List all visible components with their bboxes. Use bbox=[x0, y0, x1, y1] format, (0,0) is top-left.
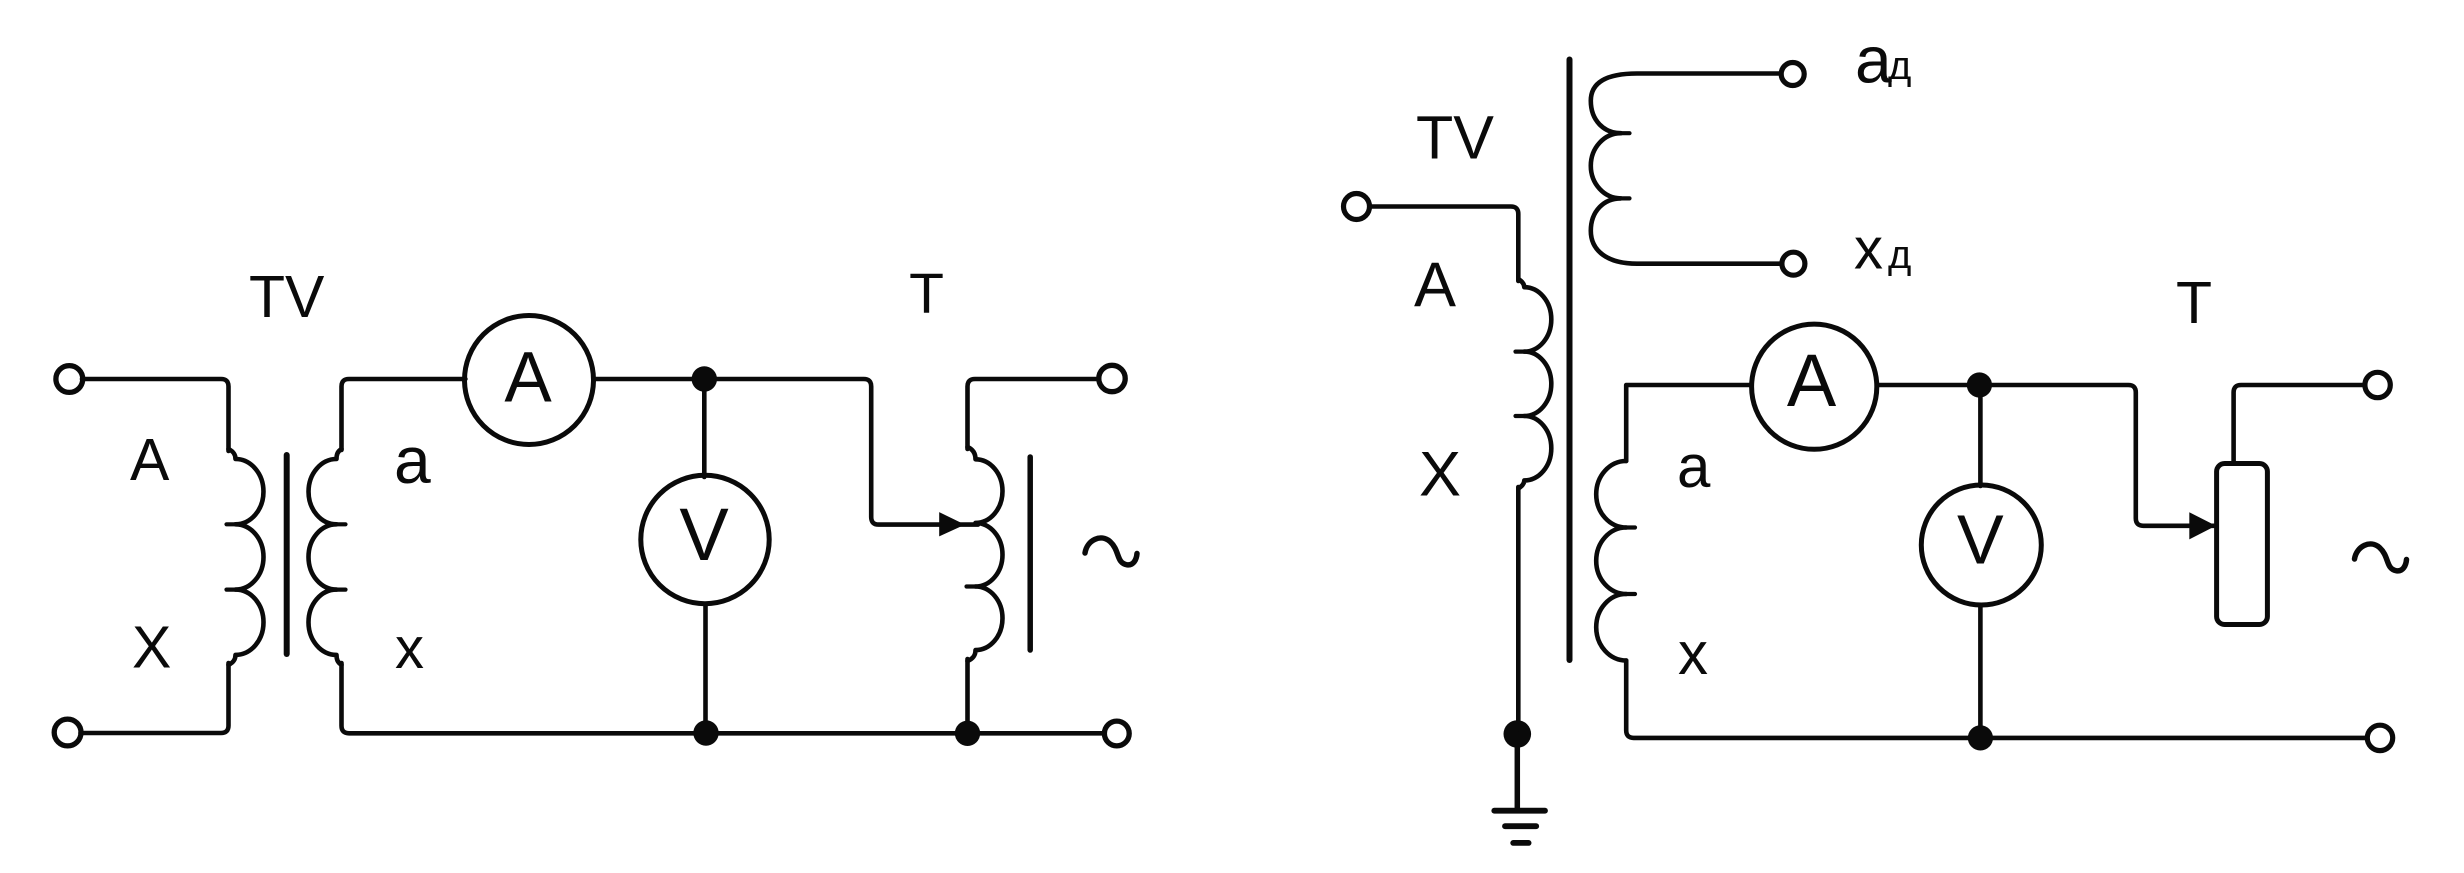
wire TV primary end to bottom-left terminal bbox=[81, 663, 229, 733]
svg-text:a: a bbox=[394, 423, 431, 497]
wire secondary a up to top rail bbox=[342, 379, 466, 450]
terminal output top-right bbox=[1099, 365, 1125, 391]
wire ammeter to tap step (through node) bbox=[1877, 385, 2214, 526]
node bottom voltmeter junction bbox=[693, 720, 718, 745]
wire TV primary end down to ground node bbox=[1516, 487, 1521, 723]
ac source tilde bbox=[2355, 544, 2407, 571]
terminal input left bbox=[1344, 194, 1370, 220]
svg-text:T: T bbox=[909, 262, 944, 326]
svg-text:TV: TV bbox=[249, 264, 325, 330]
wire input to TV primary bbox=[1370, 207, 1519, 282]
svg-text:a: a bbox=[1677, 433, 1711, 500]
winding TV additional (ad-xd) bbox=[1591, 74, 1781, 264]
wire rheostat top to output terminal bbox=[2234, 385, 2365, 463]
terminal xd bbox=[1782, 252, 1805, 275]
svg-text:х: х bbox=[1854, 217, 1883, 282]
winding cusp ticks bbox=[227, 133, 1636, 594]
wire secondary a up and to ammeter bbox=[1626, 385, 1751, 461]
rheostat body T bbox=[2217, 464, 2268, 625]
winding TV secondary bbox=[308, 449, 341, 665]
node top junction bbox=[1967, 372, 1992, 397]
terminal ad bbox=[1781, 63, 1804, 86]
winding TV secondary (a-x) bbox=[1596, 461, 1626, 661]
wire node to voltmeter bbox=[702, 391, 707, 477]
svg-text:A: A bbox=[504, 339, 552, 418]
ammeter PA1 bbox=[465, 316, 594, 445]
core autotransformer bbox=[1027, 457, 1033, 650]
tap arrow into rheostat T bbox=[2189, 512, 2216, 539]
winding TV primary bbox=[229, 449, 264, 665]
wire top-left input to TV primary bbox=[82, 379, 229, 451]
wire node to voltmeter bbox=[1978, 398, 1983, 486]
node top junction bbox=[692, 366, 717, 391]
terminal output top-right bbox=[2365, 372, 2390, 397]
svg-text:д: д bbox=[1888, 233, 1911, 277]
node bottom voltmeter junction bbox=[1968, 725, 1993, 750]
wire secondary x to bottom rail and output bbox=[1626, 661, 2367, 738]
node bottom autotransformer junction bbox=[955, 721, 980, 746]
wire autotransformer bottom to node bbox=[965, 659, 970, 722]
winding TV primary bbox=[1518, 279, 1551, 489]
tap arrow into autotransformer T bbox=[939, 512, 965, 536]
svg-text:A: A bbox=[1787, 339, 1837, 422]
svg-text:д: д bbox=[1888, 44, 1911, 88]
svg-text:x: x bbox=[395, 616, 424, 681]
winding autotransformer T bbox=[968, 447, 1003, 661]
svg-text:x: x bbox=[1678, 620, 1708, 687]
ground bbox=[1494, 734, 1545, 843]
node ground junction bbox=[1504, 720, 1532, 748]
wire voltmeter to bottom rail bbox=[1978, 605, 1983, 734]
terminal input bottom-left bbox=[54, 719, 81, 746]
terminal output bottom-right bbox=[2367, 725, 2392, 750]
svg-text:X: X bbox=[132, 615, 171, 681]
ac source tilde bbox=[1085, 538, 1137, 565]
wire secondary x to bottom rail bbox=[342, 663, 1105, 733]
svg-text:T: T bbox=[2176, 270, 2212, 336]
wire ammeter to tap step (through node) bbox=[594, 379, 978, 525]
voltmeter PV2 bbox=[1921, 485, 2041, 605]
ammeter PA2 bbox=[1752, 324, 1877, 449]
svg-text:V: V bbox=[1957, 501, 2004, 579]
svg-text:V: V bbox=[679, 493, 729, 576]
terminal output bottom-right bbox=[1104, 721, 1129, 746]
terminal input top-left bbox=[56, 366, 83, 393]
svg-text:TV: TV bbox=[1416, 104, 1494, 172]
svg-text:A: A bbox=[130, 427, 170, 493]
core TV bbox=[284, 455, 290, 654]
svg-text:A: A bbox=[1414, 250, 1456, 320]
voltmeter PV1 bbox=[641, 475, 769, 603]
svg-text:а: а bbox=[1855, 23, 1892, 97]
wire voltmeter to bottom rail bbox=[703, 604, 708, 730]
wire autotransformer top to right terminal bbox=[968, 379, 1100, 449]
svg-text:X: X bbox=[1419, 440, 1461, 510]
core TV bbox=[1567, 60, 1573, 661]
